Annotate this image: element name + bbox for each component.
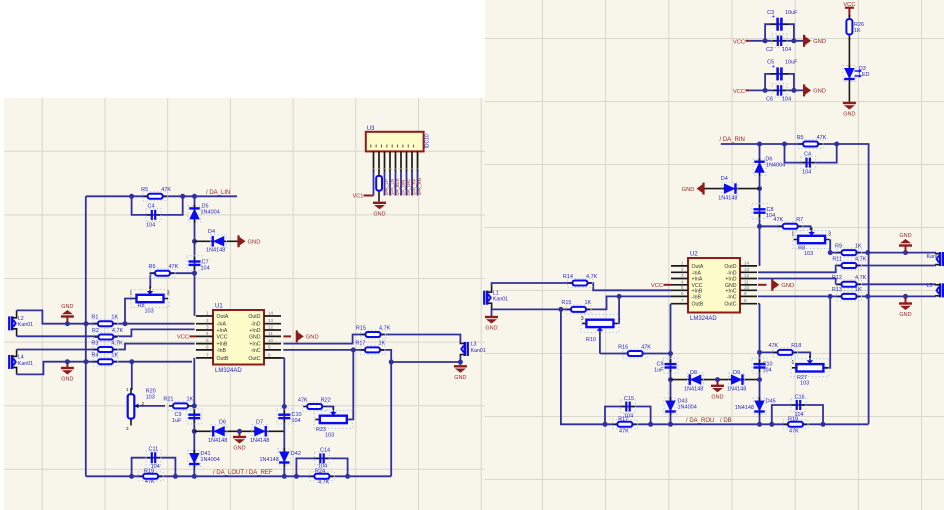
- svg-text:103: 103: [325, 433, 334, 439]
- wire led: [848, 38, 850, 102]
- svg-text:1: 1: [792, 232, 795, 238]
- junction: [668, 377, 673, 382]
- junction: [782, 142, 787, 147]
- svg-text:GND: GND: [781, 283, 794, 289]
- resistor R9: [838, 252, 861, 254]
- svg-text:L1: L1: [493, 290, 499, 296]
- svg-text:47K: 47K: [619, 428, 629, 434]
- wire K3 bottom row2: [492, 296, 671, 309]
- svg-text:L5: L5: [927, 283, 933, 289]
- resistor R2 row2: [94, 336, 117, 338]
- power GND flip r: [905, 246, 907, 253]
- svg-text:VCC: VCC: [733, 89, 745, 95]
- wire pot1 to row1: [125, 299, 132, 324]
- svg-text:Kan01: Kan01: [18, 361, 33, 367]
- junction: [389, 360, 394, 365]
- svg-text:GND: GND: [899, 233, 911, 239]
- resistor R4 row4: [94, 361, 117, 363]
- junction: [757, 224, 762, 229]
- svg-text:U1: U1: [215, 304, 223, 310]
- svg-text:LED: LED: [859, 72, 870, 78]
- resistor R7: [779, 225, 802, 227]
- power GND L3: [454, 365, 467, 367]
- power GND K3: [491, 309, 493, 317]
- svg-text:OutB: OutB: [692, 302, 704, 308]
- power GND arrow U1: [283, 335, 291, 337]
- svg-text:C14: C14: [320, 448, 330, 454]
- svg-text:OutA: OutA: [217, 314, 229, 320]
- junction: [192, 271, 197, 276]
- svg-text:10: 10: [744, 285, 750, 290]
- power GND arrow r: [702, 183, 704, 195]
- resistor R19r: [784, 423, 807, 425]
- svg-text:3: 3: [167, 291, 170, 297]
- diode D41: [193, 450, 195, 468]
- power GND r4: [905, 296, 907, 303]
- svg-text:+InD: +InD: [249, 328, 260, 334]
- capacitor C2: [772, 40, 778, 42]
- svg-text:VCC: VCC: [217, 334, 228, 340]
- jack L2: [8, 316, 10, 330]
- svg-text:7: 7: [206, 352, 209, 357]
- svg-text:DA_LRC: DA_LRC: [406, 179, 411, 196]
- svg-text:C2: C2: [766, 47, 773, 53]
- svg-text:13: 13: [268, 318, 274, 323]
- svg-text:-InB: -InB: [692, 294, 702, 300]
- svg-text:IDC10: IDC10: [425, 134, 431, 148]
- svg-text:LM324AD: LM324AD: [690, 316, 717, 322]
- capacitor C3: [771, 23, 778, 25]
- junction: [617, 294, 622, 299]
- svg-text:47K: 47K: [789, 428, 799, 434]
- junction: [294, 474, 299, 479]
- svg-text:5: 5: [681, 285, 684, 290]
- resistor R15: [362, 334, 385, 336]
- junction: [791, 88, 796, 93]
- wire L2 bottom row2: [17, 329, 195, 336]
- diode D9: [728, 379, 746, 381]
- resistor R6: [151, 272, 174, 274]
- wire C4r loop: [785, 144, 837, 163]
- wire C14 loop: [296, 458, 347, 476]
- wire bottom net: [86, 475, 391, 477]
- power GND led: [843, 102, 856, 104]
- resistor R21: [169, 405, 192, 407]
- svg-text:14: 14: [744, 260, 750, 265]
- diode D45: [759, 397, 761, 415]
- svg-text:-InA: -InA: [692, 270, 702, 276]
- svg-text:VCC: VCC: [177, 335, 189, 341]
- svg-text:-InC: -InC: [727, 294, 737, 300]
- svg-text:SPK_LN: SPK_LN: [390, 179, 395, 195]
- potentiometer R23: [315, 418, 351, 420]
- capacitor C4r: [802, 162, 807, 164]
- svg-text:1: 1: [130, 291, 133, 297]
- svg-text:+InD: +InD: [725, 277, 736, 283]
- resistor R5: [144, 195, 167, 197]
- capacitor C11: [147, 457, 152, 459]
- svg-text:OutC: OutC: [248, 356, 260, 362]
- svg-text:D3: D3: [859, 66, 866, 72]
- wire OutD chain: [759, 144, 761, 266]
- svg-text:/ DA_LIN: / DA_LIN: [206, 190, 230, 196]
- junction: [282, 404, 287, 409]
- svg-text:104: 104: [802, 170, 811, 176]
- resistor R22: [303, 406, 326, 408]
- svg-text:/ DA_ROU: / DA_ROU: [686, 418, 714, 424]
- svg-text:GND: GND: [233, 446, 245, 452]
- svg-text:R19: R19: [144, 468, 154, 474]
- resistor R5r: [799, 143, 822, 145]
- svg-text:R22: R22: [321, 397, 331, 403]
- svg-text:+InA: +InA: [692, 277, 703, 283]
- capacitor C6: [772, 89, 778, 91]
- wire vert 868 low: [868, 253, 870, 424]
- svg-text:1N4148: 1N4148: [735, 405, 754, 411]
- svg-text:D9: D9: [733, 370, 740, 376]
- wire diode row DG: [194, 430, 284, 432]
- junction: [865, 294, 870, 299]
- svg-text:47K: 47K: [169, 264, 179, 270]
- svg-text:+InA: +InA: [217, 328, 228, 334]
- svg-text:4.7K: 4.7K: [112, 328, 124, 334]
- svg-text:4: 4: [206, 331, 209, 336]
- junction: [603, 422, 608, 427]
- svg-text:104: 104: [146, 223, 155, 229]
- svg-text:8: 8: [268, 352, 271, 357]
- potentiometer R20: [130, 388, 132, 426]
- junction: [129, 194, 134, 199]
- svg-text:GND: GND: [249, 334, 261, 340]
- svg-text:104: 104: [782, 97, 791, 103]
- svg-text:+InC: +InC: [725, 288, 736, 294]
- svg-text:1K: 1K: [854, 28, 861, 34]
- svg-text:3: 3: [206, 325, 209, 330]
- svg-text:SPK_RN: SPK_RN: [417, 178, 422, 195]
- wire bottom net r: [561, 309, 869, 424]
- wire vert 830 low: [825, 296, 830, 367]
- wire R18 row: [760, 351, 778, 353]
- svg-text:U3: U3: [367, 126, 375, 132]
- wire pin9 row: [283, 350, 460, 362]
- svg-text:L2: L2: [18, 316, 24, 322]
- junction: [769, 422, 774, 427]
- junction: [828, 294, 833, 299]
- svg-text:Kan01: Kan01: [927, 254, 942, 260]
- diode D4: [210, 240, 228, 242]
- svg-text:OutD: OutD: [248, 314, 260, 320]
- junction: [834, 142, 839, 147]
- svg-text:DA_BCK: DA_BCK: [395, 178, 400, 195]
- svg-text:1N4004: 1N4004: [766, 163, 785, 169]
- svg-text:3: 3: [126, 426, 129, 431]
- svg-text:/ DA_LOUT / DA_REF: / DA_LOUT / DA_REF: [213, 470, 273, 476]
- capacitor C10r: [759, 359, 761, 364]
- potentiometer R10: [582, 322, 618, 324]
- resistor R13: [838, 295, 861, 297]
- wire L4 bottom row4: [17, 362, 192, 375]
- wire C3 loop: [765, 24, 794, 41]
- svg-text:1N4148: 1N4148: [260, 457, 279, 463]
- svg-text:D45: D45: [766, 399, 776, 405]
- capacitor C15: [622, 406, 627, 408]
- resistor R15r: [567, 308, 590, 310]
- svg-text:+InC: +InC: [249, 342, 260, 348]
- svg-text:Kan01: Kan01: [493, 297, 508, 303]
- resistor R3 row3: [94, 349, 117, 351]
- junction: [180, 194, 185, 199]
- svg-text:1: 1: [681, 260, 684, 265]
- wire row1: [830, 252, 936, 254]
- svg-text:D4: D4: [721, 176, 728, 182]
- power GND U3: [373, 202, 386, 204]
- wire R20 tap: [139, 405, 165, 407]
- svg-text:47K: 47K: [145, 479, 155, 485]
- connector U3: [366, 132, 424, 152]
- potentiometer R8r: [794, 239, 830, 241]
- svg-text:C16: C16: [795, 395, 805, 401]
- diode D7: [251, 430, 269, 432]
- wire L3 gnd: [459, 356, 461, 366]
- resistor R1 row1: [94, 323, 117, 325]
- svg-text:/ DA_RIN: / DA_RIN: [720, 137, 745, 143]
- svg-text:1N4148: 1N4148: [208, 438, 227, 444]
- power GND arrow U2: [758, 284, 767, 286]
- svg-text:GND: GND: [248, 240, 261, 246]
- svg-text:4.7K: 4.7K: [855, 256, 867, 262]
- resistor R12: [838, 283, 861, 285]
- wire pot R10 tap: [599, 335, 601, 353]
- capacitor C16: [792, 404, 797, 406]
- svg-text:OutD: OutD: [724, 264, 736, 270]
- op-amp U2: [688, 258, 740, 313]
- junction: [129, 474, 134, 479]
- junction: [791, 38, 796, 43]
- capacitor C9r: [670, 359, 672, 364]
- junction: [192, 403, 197, 408]
- svg-text:12: 12: [744, 273, 750, 278]
- wire row2: [857, 265, 936, 267]
- diode D6: [210, 430, 228, 432]
- wire R6 row: [150, 273, 194, 288]
- jack K3: [483, 291, 485, 305]
- svg-text:C11: C11: [149, 447, 159, 453]
- svg-text:13: 13: [744, 267, 750, 272]
- wire diode row r: [671, 379, 760, 381]
- svg-text:GND: GND: [843, 112, 855, 118]
- junction: [865, 250, 870, 255]
- svg-text:47K: 47K: [161, 187, 171, 193]
- junction: [757, 186, 762, 191]
- connector U3 pins: [373, 151, 375, 171]
- svg-text:47K: 47K: [641, 344, 651, 350]
- junction: [903, 294, 908, 299]
- svg-text:GND: GND: [899, 312, 911, 318]
- wire C15 loop: [605, 407, 651, 425]
- svg-text:6: 6: [681, 291, 684, 296]
- capacitor C5: [771, 73, 778, 75]
- svg-text:L3: L3: [471, 342, 477, 348]
- jack L4: [8, 355, 10, 369]
- svg-text:R19: R19: [788, 416, 798, 422]
- svg-text:/ DB: / DB: [720, 418, 732, 424]
- svg-text:-InD: -InD: [251, 322, 261, 328]
- junction: [648, 422, 653, 427]
- svg-text:SPK_LP: SPK_LP: [384, 179, 389, 195]
- wire OutC vertical: [264, 357, 284, 359]
- junction: [345, 474, 350, 479]
- svg-text:104: 104: [763, 368, 772, 374]
- svg-text:D7: D7: [256, 420, 263, 426]
- wire OutA chain: [194, 196, 196, 316]
- svg-text:D42: D42: [291, 451, 301, 457]
- svg-text:6: 6: [206, 344, 209, 349]
- diode D5: [194, 205, 196, 223]
- svg-text:1N4004: 1N4004: [201, 457, 220, 463]
- capacitor C8: [759, 205, 761, 210]
- wire pot R8r to row1: [829, 240, 831, 253]
- svg-text:SPK_RP: SPK_RP: [412, 178, 417, 195]
- junction: [192, 474, 197, 479]
- svg-text:103: 103: [800, 381, 809, 387]
- svg-text:GND: GND: [373, 211, 385, 217]
- resistor R17: [361, 349, 384, 351]
- LED D3: [848, 65, 850, 83]
- junction: [558, 307, 563, 312]
- svg-text:1N4004: 1N4004: [678, 405, 697, 411]
- svg-text:C3: C3: [767, 10, 774, 16]
- svg-text:104: 104: [201, 266, 210, 272]
- capacitor C14: [316, 457, 321, 459]
- svg-text:9: 9: [268, 344, 271, 349]
- junction: [668, 351, 673, 356]
- svg-text:D8: D8: [690, 370, 697, 376]
- svg-text:4.7K: 4.7K: [111, 340, 123, 346]
- svg-text:2: 2: [206, 318, 209, 323]
- svg-text:Kan01: Kan01: [18, 322, 33, 328]
- svg-text:-InB: -InB: [217, 348, 227, 354]
- diode D8: [687, 379, 705, 381]
- svg-text:103: 103: [146, 395, 155, 401]
- wire cap rail 1: [749, 40, 804, 42]
- svg-text:10: 10: [268, 338, 274, 343]
- power GND pair1: [803, 35, 805, 47]
- capacitor C7: [194, 257, 196, 262]
- junction: [84, 359, 89, 364]
- resistor R11: [838, 265, 861, 267]
- svg-text:GND: GND: [485, 326, 497, 332]
- wire left vertical: [85, 196, 87, 476]
- wire pot R23 to row: [347, 350, 353, 420]
- wire C5 loop: [765, 74, 794, 91]
- svg-text:+InB: +InB: [217, 342, 228, 348]
- wire OutB vert r: [670, 304, 672, 424]
- svg-text:GND: GND: [454, 375, 466, 381]
- svg-text:11: 11: [744, 279, 749, 284]
- junction: [84, 321, 89, 326]
- svg-text:104: 104: [292, 418, 301, 424]
- svg-text:R24: R24: [315, 468, 325, 474]
- svg-text:1uF: 1uF: [172, 418, 182, 424]
- svg-text:-InD: -InD: [727, 270, 737, 276]
- wire pot R10 right: [618, 296, 621, 323]
- svg-text:14: 14: [268, 311, 274, 316]
- wire net DA_RIN: [721, 144, 869, 253]
- junction: [458, 360, 463, 365]
- svg-text:GND: GND: [813, 89, 826, 95]
- svg-text:Kan01: Kan01: [471, 348, 486, 354]
- wire OutC vert r: [758, 303, 760, 305]
- resistor R26 vertical: [848, 15, 850, 40]
- svg-text:4.7K: 4.7K: [855, 275, 867, 281]
- svg-text:5: 5: [206, 338, 209, 343]
- svg-text:1: 1: [792, 360, 795, 366]
- power GND pair2: [803, 84, 805, 96]
- jack K1: [942, 252, 944, 266]
- svg-text:R18: R18: [791, 343, 801, 349]
- svg-text:2: 2: [681, 267, 684, 272]
- junction: [757, 422, 762, 427]
- svg-text:10uF: 10uF: [785, 10, 798, 16]
- wire R7 row: [760, 226, 811, 230]
- capacitor C4: [147, 214, 152, 216]
- svg-text:4.7K: 4.7K: [379, 325, 391, 331]
- svg-text:12: 12: [268, 325, 274, 330]
- svg-text:GND: GND: [61, 304, 73, 310]
- diode D6r: [759, 158, 761, 176]
- svg-text:1N4148: 1N4148: [718, 196, 737, 202]
- junction: [65, 359, 70, 364]
- diode D43: [670, 397, 672, 415]
- svg-text:3: 3: [828, 232, 831, 238]
- junction: [192, 194, 197, 199]
- wire row4: [758, 295, 936, 297]
- connector U3 net labels: [373, 172, 375, 196]
- junction: [903, 250, 908, 255]
- junction: [668, 422, 673, 427]
- junction: [715, 377, 720, 382]
- wire R17 down: [390, 362, 392, 476]
- svg-text:OutA: OutA: [692, 264, 704, 270]
- svg-text:D6: D6: [219, 420, 226, 426]
- diode D4r: [721, 188, 739, 190]
- svg-text:1N4148: 1N4148: [684, 387, 703, 393]
- svg-text:VCC: VCC: [651, 283, 663, 289]
- svg-text:104: 104: [782, 47, 791, 53]
- resistor R25 vertical: [378, 172, 380, 202]
- power GND flipped: [66, 317, 68, 324]
- svg-text:GND: GND: [61, 377, 73, 383]
- junction: [123, 321, 128, 326]
- junction: [757, 377, 762, 382]
- power GND mid r: [717, 380, 719, 386]
- resistor R19: [139, 475, 162, 477]
- svg-text:GND: GND: [306, 335, 319, 341]
- junction: [351, 347, 356, 352]
- wire D4r row: [704, 188, 760, 190]
- wire row3: [758, 279, 836, 285]
- junction: [237, 429, 242, 434]
- svg-text:3: 3: [681, 273, 684, 278]
- svg-text:9: 9: [744, 291, 747, 296]
- svg-text:8: 8: [744, 298, 747, 303]
- jack K2: [942, 283, 944, 297]
- svg-text:1N4148: 1N4148: [250, 438, 269, 444]
- capacitor C10: [283, 410, 285, 415]
- junction: [192, 239, 197, 244]
- wire K3 top: [492, 283, 671, 290]
- power GND mid: [239, 431, 241, 437]
